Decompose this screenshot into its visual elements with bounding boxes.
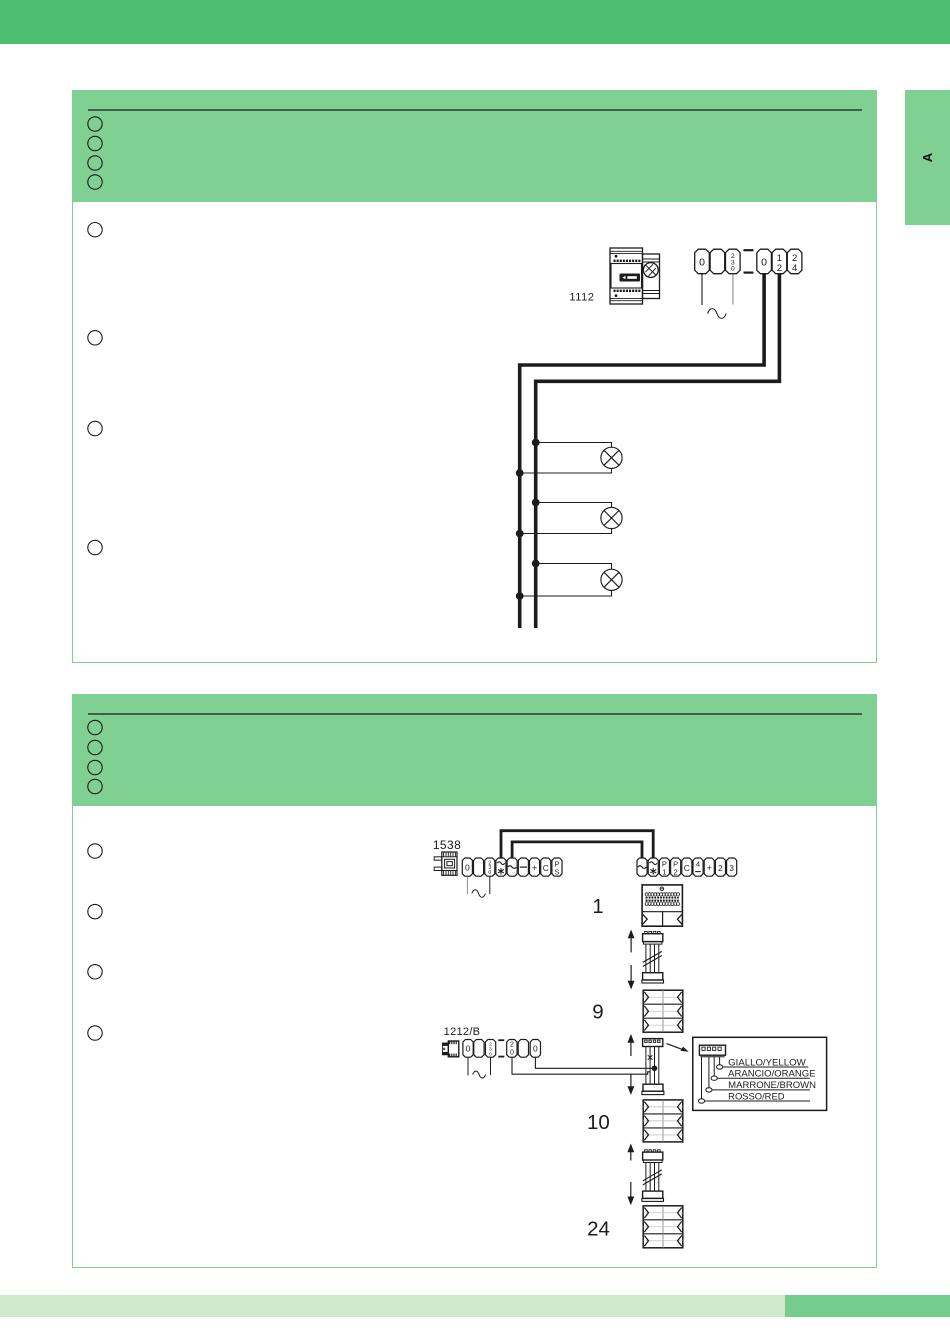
cut mark x — [648, 1055, 653, 1060]
lamp L3 — [601, 569, 622, 590]
riser arrows gap3 — [627, 1144, 634, 1206]
transformer 1212/B — [442, 1041, 458, 1057]
footer pale bar — [0, 1295, 785, 1317]
terminal block 1112 secondary — [757, 249, 802, 274]
callout connector — [699, 1045, 725, 1057]
svg-text:1: 1 — [592, 896, 603, 918]
svg-text:0: 0 — [533, 1044, 538, 1054]
lamp L1 — [601, 447, 622, 468]
svg-text:0: 0 — [488, 870, 491, 876]
svg-text:4: 4 — [792, 263, 797, 274]
box2 header rule — [88, 713, 862, 715]
svg-text:0: 0 — [761, 256, 767, 268]
svg-text:24: 24 — [587, 1217, 610, 1240]
svg-text:9: 9 — [592, 1000, 603, 1023]
power supply 1112 — [610, 248, 660, 304]
AC mains wires 1538 — [467, 876, 489, 897]
lamp L2 — [601, 507, 622, 528]
riser arrows gap1 — [628, 930, 635, 990]
lamp L2 branch wires — [520, 503, 612, 534]
lamp L3 branch wires — [520, 564, 612, 597]
riser cable 1 — [642, 931, 664, 983]
floor connector cable — [642, 1039, 664, 1095]
svg-text:C: C — [684, 863, 690, 873]
svg-text:ARANCIO/ORANGE: ARANCIO/ORANGE — [728, 1069, 815, 1079]
svg-text:10: 10 — [587, 1111, 610, 1134]
terminal block staircase unit — [637, 858, 737, 876]
svg-text:MARRONE/BROWN: MARRONE/BROWN — [728, 1080, 816, 1090]
floor distributor 10 — [643, 1100, 683, 1142]
riser arrows gap2 — [628, 1034, 635, 1095]
wire from terminal 20 to riser — [512, 1057, 650, 1074]
junction dots L1 — [532, 439, 540, 447]
riser cable 2 — [642, 1150, 664, 1202]
svg-text:2: 2 — [674, 867, 678, 876]
svg-text:0: 0 — [465, 863, 470, 873]
section box 2 header band — [72, 694, 877, 806]
lamp L1 branch wires — [520, 443, 612, 474]
svg-text:2: 2 — [792, 253, 797, 264]
callout arrow — [667, 1044, 685, 1051]
svg-text:1: 1 — [662, 867, 666, 876]
svg-text:0: 0 — [699, 256, 705, 268]
wire loop outer — [501, 831, 653, 858]
svg-text:ROSSO/RED: ROSSO/RED — [728, 1091, 785, 1101]
svg-text:1212/B: 1212/B — [444, 1026, 481, 1038]
svg-text:0: 0 — [731, 266, 735, 273]
box1 header rule — [88, 109, 862, 111]
side tab A — [905, 90, 950, 225]
callout labels — [728, 1057, 816, 1101]
box1 list bullet circles — [88, 223, 102, 555]
section box 1 frame — [72, 90, 877, 663]
svg-text:GIALLO/YELLOW: GIALLO/YELLOW — [728, 1057, 806, 1067]
AC mains wires and symbol — [702, 274, 733, 319]
svg-text:1112: 1112 — [569, 292, 594, 304]
svg-text:4: 4 — [696, 860, 700, 869]
svg-text:0: 0 — [466, 1044, 471, 1054]
svg-text:3: 3 — [729, 864, 734, 873]
svg-text:S: S — [554, 867, 559, 876]
footer green bar — [785, 1295, 950, 1317]
side tab letter A — [905, 90, 950, 225]
transformer 1538 — [434, 852, 457, 875]
wire from terminal 0 to riser — [535, 1057, 654, 1068]
wire from terminal 0 secondary — [520, 274, 764, 628]
floor distributor 9 — [643, 990, 683, 1032]
svg-text:C: C — [543, 863, 549, 873]
svg-text:2: 2 — [718, 864, 723, 873]
callout wires and lugs — [698, 1057, 810, 1104]
svg-text:0: 0 — [489, 1052, 492, 1058]
wire from terminal 12 — [536, 274, 780, 628]
junction dots L3 — [532, 560, 540, 568]
svg-text:+: + — [532, 863, 537, 873]
separator dashes 1212/B — [498, 1040, 504, 1056]
AC mains wires 1212/B — [468, 1057, 491, 1078]
svg-text:2: 2 — [777, 263, 782, 274]
box2 list bullet circles — [88, 844, 102, 1040]
speaker grille — [645, 893, 680, 906]
wire loop inner — [512, 842, 642, 858]
pinout callout box — [693, 1037, 827, 1110]
svg-text:1: 1 — [777, 253, 782, 264]
svg-text:2: 2 — [510, 1042, 514, 1049]
terminal block 1112 primary — [695, 249, 740, 274]
top banner bar — [0, 0, 950, 44]
terminal block 1212/B secondary — [507, 1040, 541, 1058]
section box 2 frame — [72, 694, 877, 1268]
svg-text:0: 0 — [510, 1049, 514, 1056]
junction dots L2 — [532, 499, 540, 507]
door speaker unit — [642, 885, 682, 926]
box2 header bullet circles — [88, 720, 102, 793]
terminal block 1212/B primary — [463, 1040, 496, 1058]
separator dashes — [744, 250, 754, 272]
box1 header bullet circles — [88, 117, 102, 189]
floor distributor 24 — [643, 1206, 683, 1248]
svg-text:+: + — [707, 863, 712, 873]
junction dot — [652, 1066, 658, 1072]
svg-text:1538: 1538 — [433, 838, 461, 852]
section box 1 header band — [72, 90, 877, 202]
terminal block 1538 — [462, 858, 562, 876]
